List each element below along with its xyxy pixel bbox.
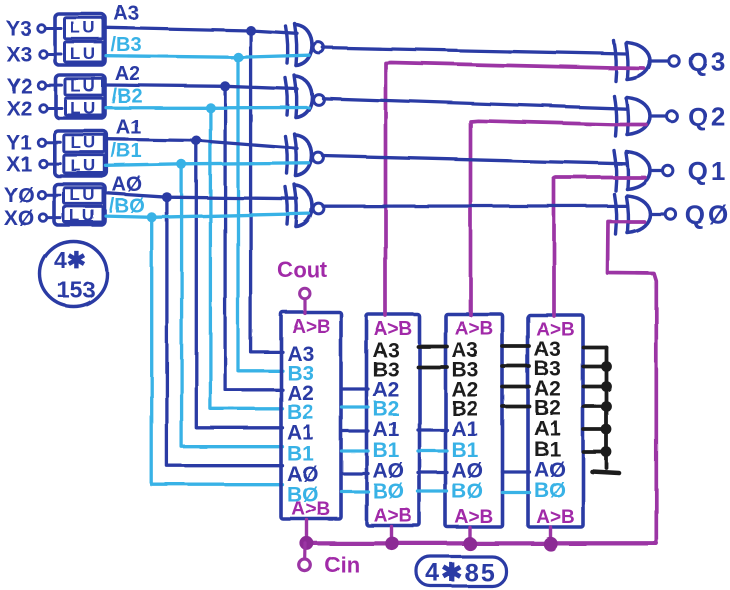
wire U1 cascade input stub xyxy=(305,520,308,543)
LU lower sub-box 2 xyxy=(65,98,103,115)
svg-text:BØ: BØ xyxy=(452,480,484,503)
wire B0 gap U3-U4 xyxy=(503,491,530,494)
input terminal X2 xyxy=(39,104,47,112)
wire XOR Q0 output xyxy=(651,212,665,215)
XOR gate for Q0 xyxy=(614,194,616,234)
wire tie B1 right of U4 xyxy=(584,450,607,454)
wire A2 horizontal LU to XNOR xyxy=(106,85,297,89)
wire B1 gap U2-U3 xyxy=(418,449,447,452)
XOR gate for Q2 xyxy=(614,96,616,136)
svg-text:4✱: 4✱ xyxy=(54,247,86,273)
wire XNOR1 output to XOR Q1 xyxy=(323,156,626,164)
wire /B2 horizontal LU to XNOR xyxy=(106,106,309,110)
wire U2 cascade input stub xyxy=(390,527,393,544)
wire /B0 vertical drop to comparator xyxy=(152,217,283,484)
svg-text:/B1: /B1 xyxy=(111,141,142,163)
junction bus U2 xyxy=(385,537,399,551)
wire A2 gap U1-U2 xyxy=(342,387,369,390)
wire Cout stub xyxy=(303,299,306,314)
svg-text:LU: LU xyxy=(70,44,98,63)
svg-text:4✱85: 4✱85 xyxy=(426,559,497,587)
XNOR gate for bit 1 xyxy=(286,137,288,174)
wire B1 gap U1-U2 xyxy=(342,449,369,452)
terminal Cout xyxy=(299,288,309,298)
wire tie A2 gap U3-U4 (grounded) xyxy=(503,385,530,389)
svg-text:LU: LU xyxy=(70,18,98,37)
svg-text:Cin: Cin xyxy=(324,552,359,577)
svg-text:X1: X1 xyxy=(6,153,32,176)
wire A1 gap U2-U3 xyxy=(418,428,447,431)
XNOR gate for bit 2 xyxy=(286,78,288,115)
LU upper sub-box 1 xyxy=(64,135,105,152)
wire XNOR3 output to XOR Q3 xyxy=(323,48,626,55)
svg-text:Y1: Y1 xyxy=(6,132,32,155)
svg-text:A2: A2 xyxy=(115,63,141,85)
junction /B2 xyxy=(205,103,215,113)
terminal Cin xyxy=(299,560,311,572)
svg-text:A>B: A>B xyxy=(536,507,575,528)
input terminal Y2 xyxy=(38,81,46,89)
LU upper sub-box 0 xyxy=(64,188,104,204)
LU upper sub-box 3 xyxy=(65,18,104,39)
wire U4 cascade input stub xyxy=(549,527,552,544)
comparator U4 (85) body xyxy=(528,315,583,527)
junction A1 xyxy=(191,136,201,146)
wire A1 vertical drop to comparator xyxy=(196,141,282,428)
svg-text:BØ: BØ xyxy=(373,480,405,503)
output terminal Q0 xyxy=(665,209,675,219)
wire tie A2 right of U4 xyxy=(584,385,607,389)
wire A1 gap U1-U2 xyxy=(342,429,369,432)
input terminal X3 xyxy=(39,50,47,58)
XOR gate for Q3 xyxy=(614,41,616,81)
wire tie B2 gap U3-U4 (grounded) xyxy=(503,405,530,409)
svg-text:/BØ: /BØ xyxy=(109,196,145,218)
junction A2 xyxy=(220,81,230,91)
svg-text:QØ: QØ xyxy=(685,200,730,230)
junction bus U3 xyxy=(463,537,477,551)
svg-text:A1: A1 xyxy=(287,422,314,445)
wire A3 horizontal LU to XNOR xyxy=(106,27,297,33)
junction /B3 xyxy=(233,52,243,62)
mux block LU pair 1 (4*153) xyxy=(54,131,107,176)
svg-text:LU: LU xyxy=(69,185,97,204)
svg-text:A>B: A>B xyxy=(455,319,494,340)
svg-text:/B2: /B2 xyxy=(111,86,142,108)
junction tie A2 xyxy=(601,381,612,392)
junction bus U1 xyxy=(300,536,314,550)
wire XNOR0 output to XOR Q0 xyxy=(323,204,626,208)
wire /B0 horizontal LU to XNOR xyxy=(106,214,309,218)
wire /B2 vertical drop to comparator xyxy=(210,108,282,409)
mux block LU pair 0 (4*153) xyxy=(54,184,105,225)
wire A1 horizontal LU to XNOR xyxy=(106,139,297,148)
svg-text:LU: LU xyxy=(70,77,98,96)
wire A0 vertical drop to comparator xyxy=(167,197,283,466)
LU upper sub-box 2 xyxy=(65,79,103,95)
wire /B1 vertical drop to comparator xyxy=(182,164,283,446)
input terminal Y3 xyxy=(38,25,46,33)
LU lower sub-box 3 xyxy=(65,42,104,62)
wire tie vertical rail xyxy=(605,348,609,469)
svg-text:Cout: Cout xyxy=(277,257,328,282)
svg-text:A1: A1 xyxy=(116,117,142,139)
wire XOR Q1 output xyxy=(651,169,663,172)
XNOR gate for bit 0 xyxy=(286,187,288,224)
wire /B3 horizontal LU to XNOR xyxy=(106,55,309,57)
svg-text:AØ: AØ xyxy=(112,174,142,196)
ground symbol xyxy=(592,472,619,474)
wire U3 A&gt;B output to XOR Q2 xyxy=(471,121,647,315)
svg-text:153: 153 xyxy=(57,277,95,303)
wire tie B2 right of U4 xyxy=(584,405,607,409)
svg-text:Y2: Y2 xyxy=(6,74,32,97)
wire U3 cascade input stub xyxy=(468,528,471,545)
wire tie A3 gap U3-U4 (grounded) xyxy=(503,345,530,349)
input terminal X0 xyxy=(39,214,47,222)
svg-text:BØ: BØ xyxy=(534,479,566,502)
svg-text:A1: A1 xyxy=(452,418,479,441)
wire A0 horizontal LU to XNOR xyxy=(106,193,297,199)
svg-text:X2: X2 xyxy=(6,97,32,120)
svg-text:YØ: YØ xyxy=(4,184,34,207)
wire tie B3 gap U2-U3 (grounded) xyxy=(418,365,447,369)
wire A3 vertical drop to comparator xyxy=(251,31,283,352)
svg-text:Q2: Q2 xyxy=(688,102,729,132)
wire XNOR2 output to XOR Q2 xyxy=(323,98,626,108)
svg-text:Q3: Q3 xyxy=(688,47,729,77)
svg-text:/B3: /B3 xyxy=(110,34,141,56)
callout bubble 4*85 xyxy=(417,557,507,587)
svg-text:Q1: Q1 xyxy=(688,156,729,186)
svg-text:Y3: Y3 xyxy=(6,18,32,41)
junction /B1 xyxy=(177,159,187,169)
svg-text:A3: A3 xyxy=(113,3,139,25)
svg-text:LU: LU xyxy=(70,133,98,152)
junction /B0 xyxy=(147,212,157,222)
junction tie B2 xyxy=(601,401,612,412)
wire Cin feedback to XOR Q0 xyxy=(608,222,657,544)
callout bubble 4*153 xyxy=(40,242,107,307)
junction A0 xyxy=(162,192,172,202)
wire A0 gap U1-U2 xyxy=(342,472,369,475)
mux block LU pair 3 (4*153) xyxy=(55,14,105,65)
wire tie A3 right of U4 xyxy=(584,346,607,350)
svg-text:A>B: A>B xyxy=(292,317,331,338)
svg-text:XØ: XØ xyxy=(4,207,34,230)
wire XOR Q2 output xyxy=(651,114,667,117)
wire Cin bus xyxy=(307,541,657,545)
XNOR gate for bit 3 xyxy=(286,26,288,63)
junction tie B1 xyxy=(601,447,612,458)
comparator U2 (85) body xyxy=(367,315,420,526)
wire B0 gap U1-U2 xyxy=(342,490,369,493)
input terminal X1 xyxy=(39,160,47,168)
comparator U1 (85) body xyxy=(281,312,341,519)
wire tie A1 right of U4 xyxy=(584,428,607,432)
wire U4 A&gt;B output to XOR Q1 xyxy=(554,178,645,317)
input terminal Y1 xyxy=(38,139,46,147)
svg-text:A1: A1 xyxy=(534,417,561,440)
comparator U3 (85) body xyxy=(446,314,503,527)
XOR gate for Q1 xyxy=(614,151,616,191)
junction tie A1 xyxy=(601,424,612,435)
wire B2 gap U1-U2 xyxy=(342,405,369,408)
svg-text:LU: LU xyxy=(70,99,98,118)
wire XOR Q3 output xyxy=(651,59,669,62)
wire A0 gap U3-U4 xyxy=(503,470,530,473)
output terminal Q2 xyxy=(667,111,677,121)
wire A2 vertical drop to comparator xyxy=(225,86,282,390)
svg-text:A>B: A>B xyxy=(374,506,413,527)
svg-text:LU: LU xyxy=(69,206,97,225)
input terminal Y0 xyxy=(38,191,46,199)
wire tie B3 gap U3-U4 (grounded) xyxy=(503,365,530,369)
wire tie A3 gap U2-U3 (grounded) xyxy=(418,345,447,349)
svg-text:A>B: A>B xyxy=(292,499,331,520)
output terminal Q1 xyxy=(663,165,673,175)
LU lower sub-box 0 xyxy=(64,206,104,222)
wire /B3 vertical drop to comparator xyxy=(238,57,283,371)
wire A0 gap U2-U3 xyxy=(418,471,447,474)
wire Cin drop xyxy=(304,543,307,558)
output terminal Q3 xyxy=(669,56,679,66)
svg-text:A>B: A>B xyxy=(374,319,413,340)
junction A3 xyxy=(246,26,256,36)
svg-text:A1: A1 xyxy=(373,418,400,441)
svg-text:LU: LU xyxy=(70,156,98,175)
mux block LU pair 2 (4*153) xyxy=(56,75,106,118)
svg-text:X3: X3 xyxy=(6,43,32,66)
wire /B1 horizontal LU to XNOR xyxy=(106,163,309,166)
junction bus U4 xyxy=(543,537,557,551)
wire tie B3 right of U4 xyxy=(584,365,607,369)
junction tie B3 xyxy=(601,361,612,372)
wire B0 gap U2-U3 xyxy=(418,490,447,493)
svg-text:A>B: A>B xyxy=(455,507,494,528)
LU lower sub-box 1 xyxy=(64,155,105,173)
wire U2 A&gt;B output to XOR Q3 xyxy=(386,63,645,316)
